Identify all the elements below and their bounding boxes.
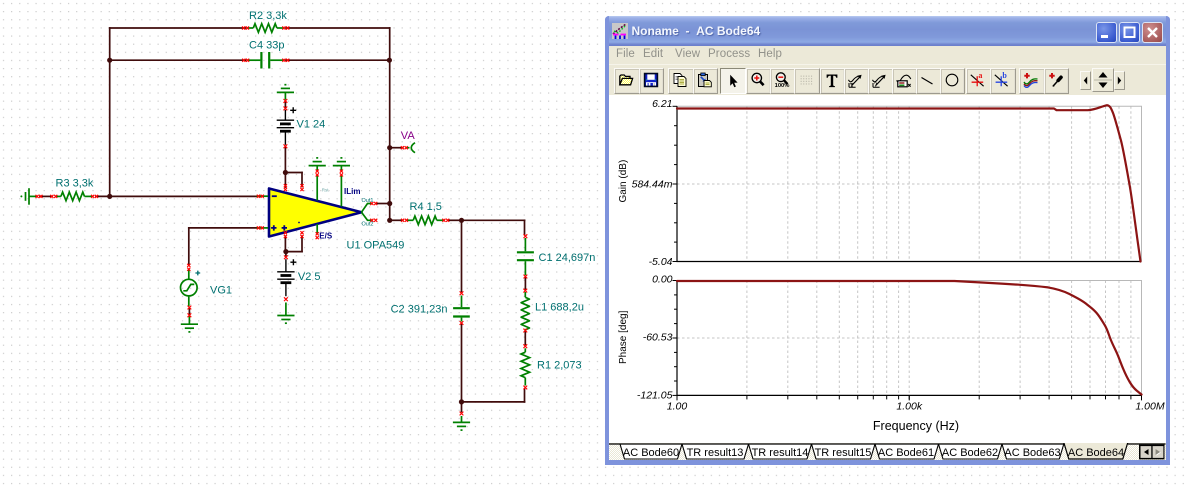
svg-text:b: b [1003, 72, 1008, 80]
svg-text:1.00M: 1.00M [1135, 401, 1164, 413]
svg-text:TR result15: TR result15 [815, 447, 872, 459]
tab AC Bode64 (selected) [1064, 443, 1128, 460]
wire bottom pin link [285, 251, 302, 253]
svg-text:Out1: Out1 [362, 198, 374, 204]
wire R4 to node [448, 219, 462, 221]
wire bottom horizontal [462, 401, 525, 403]
ground above V1 (inverted) [277, 85, 294, 100]
svg-text:L1 688,2u: L1 688,2u [535, 301, 584, 313]
toolbar button open [614, 68, 640, 94]
svg-text:VG1: VG1 [210, 284, 232, 296]
toolbar button pen [1044, 68, 1070, 94]
svg-text:R3 3,3k: R3 3,3k [56, 177, 94, 189]
ground on op-amp ILim pin (inverted) [333, 158, 350, 171]
tab TR result15 [812, 444, 876, 459]
node Out2/R4 junction [387, 218, 392, 223]
input port terminal [20, 188, 37, 205]
svg-text:ILim: ILim [344, 187, 360, 196]
node Out1 junction [387, 201, 392, 206]
svg-text:Frequency (Hz): Frequency (Hz) [873, 419, 959, 433]
wire V1 ground link [284, 102, 286, 107]
inductor L1 [521, 292, 529, 331]
toolbar button crossa [966, 68, 992, 94]
output terminal VA [406, 143, 415, 153]
svg-text:AC Bode61: AC Bode61 [878, 447, 934, 459]
toolbar button save [639, 68, 665, 94]
svg-text:VA: VA [401, 130, 416, 142]
node C2/R1/ground junction [459, 399, 464, 404]
toolbar button zoomout [770, 68, 796, 94]
toolbar button cursor [720, 68, 746, 94]
svg-text:R2 3,3k: R2 3,3k [249, 10, 287, 22]
resistor R3 [55, 192, 94, 201]
svg-text:Phase [deg]: Phase [deg] [618, 310, 629, 364]
node C4 right/output junction [387, 58, 392, 63]
svg-text:TR result13: TR result13 [687, 447, 744, 459]
battery V2 [277, 259, 296, 296]
svg-text:Rst: Rst [322, 187, 329, 192]
svg-text:C4 33p: C4 33p [249, 39, 284, 51]
node V1/V+ supply junction [283, 170, 288, 175]
toolbar button circle [940, 68, 966, 94]
toolbar button crossb [990, 68, 1016, 94]
toolbar page spinner [1080, 71, 1091, 90]
svg-text:Out2: Out2 [362, 222, 374, 228]
svg-text:E/S: E/S [319, 231, 333, 240]
capacitor C4 [248, 52, 285, 69]
ground below V2 [277, 303, 294, 324]
tab TR result14 [749, 444, 812, 459]
ground below VG1 [181, 316, 198, 332]
node feedback/C4 left junction [107, 58, 112, 63]
voltage generator VG1 [181, 270, 198, 306]
toolbar button copy [668, 68, 694, 94]
wire node to V2 [285, 252, 287, 256]
VG1 polarity plus [195, 271, 200, 276]
toolbar button legend [892, 68, 918, 94]
wire C2 to bottom node [461, 325, 463, 402]
svg-text:1.00: 1.00 [667, 401, 688, 413]
svg-text:?: ? [874, 81, 878, 89]
resistor R2 [248, 24, 285, 33]
wire VG1 to non-inverting input [189, 227, 258, 229]
tab AC Bode63 [1002, 444, 1064, 459]
tab AC Bode62 [939, 444, 1003, 459]
wire left vertical (feedback to inverting input) [109, 28, 111, 196]
capacitor C1 [517, 238, 534, 275]
capacitor C2 [453, 296, 470, 322]
svg-text:R1 2,073: R1 2,073 [537, 359, 582, 371]
tab AC Bode61 [875, 444, 939, 459]
toolbar button paste [693, 68, 719, 94]
resistor R4 [407, 216, 444, 225]
svg-text:V1 24: V1 24 [297, 118, 326, 130]
svg-text:Gain (dB): Gain (dB) [618, 160, 629, 203]
svg-text:584.44m: 584.44m [632, 179, 673, 191]
toolbar button grid [794, 68, 820, 94]
tab scroll arrows [1139, 445, 1165, 460]
op-amp U1 OPA549 [257, 176, 372, 237]
svg-text:U1 OPA549: U1 OPA549 [347, 240, 405, 252]
svg-text:6.21: 6.21 [652, 98, 672, 110]
wire Out1 to node [376, 203, 390, 205]
svg-text:AC Bode62: AC Bode62 [942, 447, 998, 459]
svg-text:C1 24,697n: C1 24,697n [539, 252, 596, 264]
node R3/inverting input junction [107, 194, 112, 199]
wire VG1 to ground link [188, 309, 190, 315]
toolbar button curveQ [868, 68, 894, 94]
ground below output RLC branch [453, 416, 470, 430]
wire L1 to R1 [524, 332, 526, 345]
node V2 plus junction [283, 249, 288, 254]
svg-text:C2 391,23n: C2 391,23n [391, 303, 448, 315]
node VA junction [387, 145, 392, 150]
wire C1 branch drop [524, 220, 526, 234]
wire op-amp bottom pin 1 drop [284, 236, 286, 251]
svg-text:AC Bode60: AC Bode60 [623, 447, 679, 459]
svg-text:0.00: 0.00 [652, 274, 673, 286]
wire C4 row right segment [286, 59, 389, 61]
toolbar button line [916, 68, 942, 94]
battery V1 [277, 107, 297, 145]
svg-text:a: a [978, 72, 982, 80]
svg-text:-5.04: -5.04 [649, 256, 673, 268]
wire C4 row left segment [110, 59, 246, 61]
wire top feedback (R2 row) right segment [286, 27, 390, 29]
circuit schematic SVG [0, 0, 604, 485]
svg-text:1.00k: 1.00k [896, 401, 922, 413]
svg-text:TR result14: TR result14 [752, 447, 809, 459]
wire C1 to L1 [524, 278, 526, 289]
wire Out2 to R4 [390, 219, 403, 221]
wire top feedback (R2 row) left segment [110, 27, 246, 29]
svg-text:AC Bode63: AC Bode63 [1004, 447, 1060, 459]
svg-text:V2 5: V2 5 [298, 271, 321, 283]
wire node to C2 [461, 220, 463, 291]
wire V- pin drop [301, 173, 303, 187]
wire R1 to bottom node [524, 389, 526, 402]
wire node to C1 branch [462, 219, 525, 221]
wire right vertical (feedback from output node) [389, 28, 391, 220]
wire V+ node horizontal [285, 172, 302, 174]
svg-text:-60.53: -60.53 [643, 332, 673, 344]
wire VG1 riser [188, 228, 190, 264]
toolbar button curveT [844, 68, 870, 94]
toolbar button waves [1019, 68, 1045, 94]
phase curve [677, 281, 1142, 395]
svg-text:AC Bode64: AC Bode64 [1068, 447, 1124, 459]
wire R3 to inverting input [96, 195, 258, 197]
wire bottom node to ground [461, 402, 463, 412]
wire VA stub [390, 147, 403, 149]
toolbar button T [820, 68, 846, 94]
svg-text:R4 1,5: R4 1,5 [410, 201, 442, 213]
gain curve [677, 105, 1141, 261]
wire input port to R3 [40, 195, 52, 197]
pin connection markers (red) [36, 26, 528, 415]
tab AC Bode60 [620, 444, 682, 459]
toolbar button zoomin [746, 68, 772, 94]
tab TR result13 [682, 444, 749, 459]
wire V1 minus to V+ pin [284, 148, 286, 187]
node R4/C2/C1 junction [459, 218, 464, 223]
ground on op-amp Rst pin (inverted) [309, 158, 326, 171]
resistor R1 [521, 348, 530, 385]
svg-text:100%: 100% [775, 83, 790, 88]
wire op-amp bottom pin 2 drop [301, 236, 303, 251]
